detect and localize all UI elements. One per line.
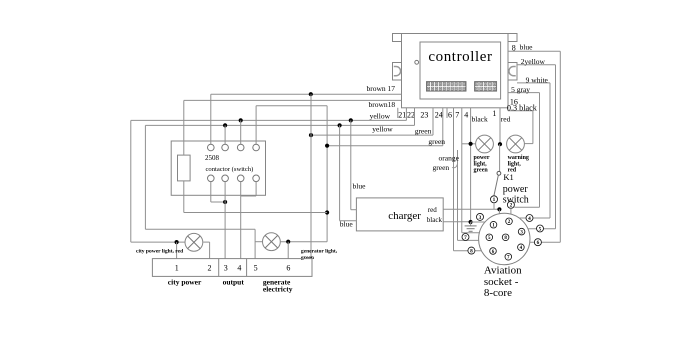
svg-text:21: 21 (398, 111, 406, 120)
svg-text:22: 22 (407, 111, 415, 120)
svg-text:7: 7 (464, 235, 467, 241)
svg-text:warning: warning (508, 155, 529, 161)
svg-text:yellow: yellow (372, 124, 393, 133)
svg-text:black: black (472, 115, 488, 124)
svg-text:K1: K1 (503, 172, 513, 182)
svg-text:6: 6 (286, 264, 290, 273)
svg-text:electricty: electricty (263, 285, 293, 294)
svg-text:1: 1 (493, 197, 496, 203)
svg-text:green: green (474, 168, 489, 174)
svg-text:switch: switch (503, 195, 529, 206)
svg-text:output: output (223, 277, 245, 286)
svg-text:Aviation: Aviation (484, 265, 522, 277)
svg-text:city power light, red: city power light, red (136, 249, 183, 255)
svg-text:red: red (428, 206, 437, 214)
svg-text:contactor (switch): contactor (switch) (206, 166, 254, 173)
svg-text:blue: blue (520, 43, 534, 52)
svg-text:7: 7 (455, 111, 459, 120)
svg-text:9 white: 9 white (526, 75, 549, 84)
svg-text:8: 8 (512, 44, 516, 53)
svg-text:5: 5 (539, 226, 542, 232)
svg-text:3: 3 (479, 215, 482, 221)
svg-text:controller: controller (428, 49, 492, 65)
svg-text:4: 4 (237, 264, 241, 273)
svg-text:green: green (428, 137, 445, 146)
svg-text:power: power (503, 184, 529, 195)
svg-text:city power: city power (168, 277, 202, 286)
svg-text:3: 3 (224, 264, 228, 273)
svg-text:0.3 black: 0.3 black (507, 104, 538, 113)
svg-text:green: green (433, 163, 450, 172)
svg-text:2: 2 (208, 264, 212, 273)
svg-text:red: red (501, 115, 511, 124)
svg-text:orange: orange (439, 153, 460, 162)
svg-text:4: 4 (528, 216, 531, 222)
svg-text:4: 4 (464, 111, 468, 120)
svg-text:light,: light, (508, 161, 522, 167)
svg-text:brown 17: brown 17 (367, 84, 396, 93)
svg-text:green: green (415, 126, 432, 135)
svg-text:2508: 2508 (205, 154, 220, 162)
svg-text:6: 6 (537, 240, 540, 246)
svg-text:charger: charger (388, 210, 421, 222)
svg-text:yellow: yellow (370, 111, 391, 120)
svg-text:8-core: 8-core (484, 287, 512, 299)
svg-text:6: 6 (448, 111, 452, 120)
svg-text:1: 1 (492, 109, 496, 118)
svg-text:brown18: brown18 (369, 100, 396, 109)
svg-text:black: black (427, 216, 443, 224)
svg-text:power: power (474, 155, 490, 161)
svg-text:1: 1 (175, 264, 179, 273)
svg-text:23: 23 (420, 111, 428, 120)
svg-text:blue: blue (353, 181, 367, 190)
svg-text:light,: light, (474, 161, 488, 167)
svg-text:2: 2 (510, 203, 513, 209)
svg-text:5: 5 (254, 264, 258, 273)
svg-text:socket -: socket - (484, 276, 519, 288)
svg-text:generator light,: generator light, (301, 249, 338, 255)
svg-text:24: 24 (435, 111, 443, 120)
svg-text:5 gray: 5 gray (511, 85, 530, 94)
svg-text:2yellow: 2yellow (521, 57, 546, 66)
svg-text:8: 8 (470, 249, 473, 255)
